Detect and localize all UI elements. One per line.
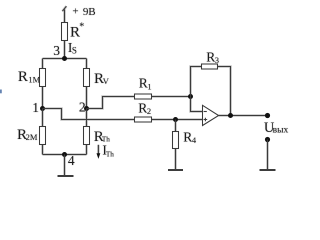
svg-text:2М: 2М [26, 132, 38, 142]
op-amp minus mark [204, 111, 207, 113]
wire R1 to junction A [152, 96, 191, 98]
scan artifact left edge [0, 90, 2, 94]
svg-text:*: * [79, 22, 84, 33]
wire R2 to junction B [152, 119, 203, 121]
node 1 junction [40, 106, 45, 111]
svg-text:1М: 1М [28, 75, 40, 85]
resistor R2 box [135, 117, 152, 122]
wire RV to node 2 [86, 87, 88, 109]
svg-text:В: В [88, 6, 95, 18]
ground below node 4 [58, 175, 74, 177]
resistor RV box [84, 69, 90, 87]
wire top row node3 [43, 58, 87, 60]
svg-text:3: 3 [53, 43, 60, 58]
wire node 1 jog down to R2 row [43, 109, 135, 120]
resistor R1M box [40, 69, 46, 87]
op-amp plus mark [204, 118, 208, 122]
wire ground terminal to ground [267, 140, 269, 171]
output wire [219, 115, 268, 117]
svg-text:4: 4 [192, 135, 197, 145]
wire from supply to R* [64, 10, 66, 23]
wire junction A to inverting input [191, 97, 203, 112]
svg-text:2: 2 [147, 106, 151, 116]
node 3 junction [62, 56, 67, 61]
junction B node R4 [173, 117, 178, 122]
ground terminal dot [265, 137, 270, 142]
resistor R2M box [40, 127, 46, 145]
wire node 4 to ground [64, 155, 66, 177]
node 4 junction [62, 152, 67, 157]
wire junction B to R4 [175, 120, 177, 132]
wire RTh to bottom row [86, 145, 88, 155]
wire bottom row [43, 154, 87, 156]
node 2 junction [84, 106, 89, 111]
junction A after R1 [188, 94, 193, 99]
wire node 1 to R2M [42, 109, 44, 127]
ground below output [260, 169, 276, 171]
junction C feedback-output [228, 113, 233, 118]
wire R* to node 3 [64, 41, 66, 59]
wire node 2 jog up to R1 row [87, 97, 135, 109]
svg-text:Тh: Тh [106, 151, 114, 159]
wire R1M to node 1 [42, 87, 44, 109]
power terminal +9V slash [62, 6, 66, 11]
svg-text:+: + [72, 6, 78, 18]
svg-text:вых: вых [273, 126, 289, 136]
wire top row to R1M [42, 59, 44, 69]
svg-text:4: 4 [68, 153, 75, 168]
resistor R* box [62, 23, 68, 41]
wire halos [43, 6, 268, 176]
svg-text:3: 3 [215, 55, 219, 65]
output terminal dot [265, 113, 270, 118]
wire node 2 to RTh [86, 109, 88, 127]
svg-text:R: R [18, 69, 28, 85]
wire top row to RV [86, 59, 88, 69]
svg-text:S: S [72, 46, 77, 56]
wire R2M to bottom row [42, 145, 44, 155]
label ITh with arrow [97, 145, 99, 154]
feedback wire up from junction A [191, 67, 202, 97]
resistor R4 box [173, 132, 179, 149]
svg-text:V: V [103, 76, 110, 86]
op-amp U1 triangle [203, 105, 219, 125]
svg-text:1: 1 [32, 100, 39, 115]
wire R4 to ground [175, 149, 177, 170]
feedback wire down to output [218, 67, 231, 116]
resistor RTh box [84, 127, 90, 145]
resistor R1 box [135, 94, 152, 99]
ground below R4 [168, 169, 183, 171]
resistor R3 box [202, 64, 218, 69]
svg-text:1: 1 [147, 81, 151, 91]
